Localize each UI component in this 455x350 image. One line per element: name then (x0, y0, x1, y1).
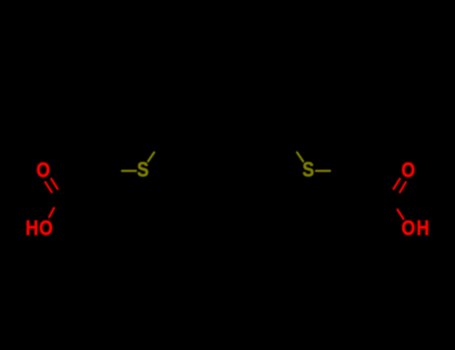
svg-text:H: H (26, 216, 39, 240)
svg-text:S: S (302, 158, 314, 182)
atom S2 (right sulfur label) (302, 158, 314, 182)
bond C1=O1 double bond line a (red half) (51, 179, 57, 189)
bond S1-CH2(benzylic) diagonal (olive half at S side) (148, 152, 154, 161)
atom S1 (left sulfur label) (137, 158, 149, 182)
atom O1 (left carbonyl oxygen label) (36, 159, 50, 183)
svg-text:O: O (36, 159, 50, 183)
bond CH2-S1 horizontal (olive half at S side) (122, 170, 136, 172)
svg-text:H: H (417, 216, 430, 240)
atom O of left hydroxyl (HO label, O glyph) (39, 217, 53, 241)
atom O2 (right carbonyl oxygen label) (401, 159, 415, 183)
bond C1-O(H) single bond (red half) (49, 208, 54, 217)
bond C2-O(H) single bond (red half) (398, 210, 404, 219)
atom H of left hydroxyl (HO label, H glyph) (26, 216, 39, 240)
bond CH2(benzylic)-S2 diagonal (olive half at S side) (297, 152, 303, 161)
bond C2=O2 double bond line b (red half) (400, 182, 406, 192)
svg-text:O: O (401, 159, 415, 183)
atom H of right hydroxyl (OH label, H glyph) (417, 216, 430, 240)
atom O of right hydroxyl (OH label, O glyph) (402, 216, 416, 240)
bond S2-CH2 horizontal (olive half at S side) (316, 170, 330, 172)
svg-text:O: O (402, 216, 416, 240)
svg-text:O: O (39, 217, 53, 241)
bond C1=O1 double bond line b (red half) (45, 182, 51, 192)
bond C2=O2 double bond line a (red half) (394, 179, 400, 189)
